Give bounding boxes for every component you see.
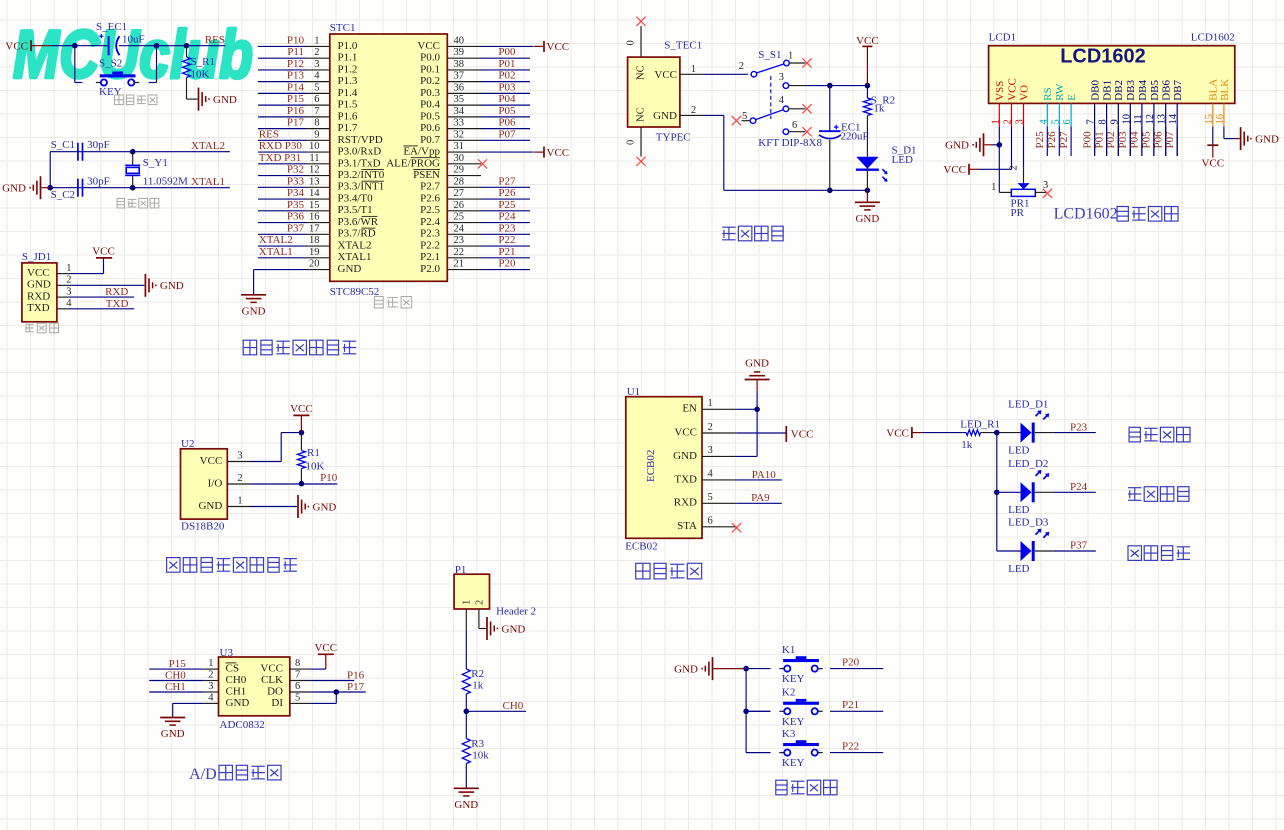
power VCC (supply) xyxy=(856,35,879,47)
svg-text:LCD1602: LCD1602 xyxy=(1191,32,1235,44)
svg-text:KEY: KEY xyxy=(99,86,122,98)
svg-text:2: 2 xyxy=(1009,165,1020,170)
U1 pin 1 (EN) xyxy=(682,398,736,415)
power VCC (STC1 pin40) xyxy=(534,41,569,53)
svg-text:P37: P37 xyxy=(1070,540,1088,552)
label STC89C52 xyxy=(330,286,380,298)
wire R3 to GND xyxy=(465,764,467,789)
label S_TEC1 xyxy=(664,40,702,52)
svg-text:XTAL2: XTAL2 xyxy=(338,239,372,251)
svg-text:CH0: CH0 xyxy=(165,669,186,681)
svg-text:P16: P16 xyxy=(347,669,365,681)
wire TXD xyxy=(69,308,135,310)
wire VCC to R2 xyxy=(866,46,868,98)
svg-text:1k: 1k xyxy=(472,679,484,691)
net label P04 xyxy=(1129,131,1141,149)
svg-text:7: 7 xyxy=(314,106,319,117)
P1 pin 2 number xyxy=(475,600,486,605)
label DS18B20 xyxy=(181,520,225,532)
svg-text:S_S1: S_S1 xyxy=(758,49,781,61)
svg-text:P2.5: P2.5 xyxy=(420,204,440,216)
U3 pin 6 (DO) xyxy=(267,681,310,697)
svg-text:P14: P14 xyxy=(287,81,305,93)
wire S_EC1 to RES xyxy=(119,45,226,47)
label LED (D1) xyxy=(1008,445,1029,457)
STC1 pin 26 (P2.5) xyxy=(420,200,481,216)
wire S_S1 pin3 to rails xyxy=(807,85,868,87)
svg-text:KEY: KEY xyxy=(782,716,805,728)
IC U1 body xyxy=(626,397,702,539)
wire net P02 (LCD pin 9) xyxy=(1117,127,1119,157)
svg-text:GND: GND xyxy=(855,213,879,225)
wire net P04 (STC1 pin 35) xyxy=(481,104,530,106)
svg-text:P35: P35 xyxy=(287,199,305,211)
wire net RXD P30 (STC1 pin 10) xyxy=(258,151,306,153)
STC1 pin 2 (P1.1) xyxy=(306,47,357,63)
net label P20 xyxy=(842,656,860,668)
label LED_R1 xyxy=(960,419,1000,431)
svg-text:GND: GND xyxy=(2,183,26,195)
svg-text:P3.6/WR: P3.6/WR xyxy=(338,216,379,228)
net label P35 xyxy=(287,199,305,211)
wire VCC to S_EC1 xyxy=(52,45,109,47)
svg-text:36: 36 xyxy=(454,82,465,93)
svg-text:P05: P05 xyxy=(498,105,516,117)
svg-text:GND: GND xyxy=(27,279,51,291)
label KEY (K1) xyxy=(782,673,805,685)
P1 pin 1 number xyxy=(462,600,473,605)
svg-text:P11: P11 xyxy=(287,46,304,58)
svg-text:30: 30 xyxy=(454,153,465,164)
svg-text:6: 6 xyxy=(314,94,319,105)
svg-text:2: 2 xyxy=(208,670,213,681)
power GND (STC1) xyxy=(241,295,266,318)
svg-text:VCC: VCC xyxy=(547,41,570,53)
power GND (R3) xyxy=(454,788,479,811)
svg-text:GND: GND xyxy=(502,623,526,635)
junction (DO/DI) xyxy=(334,689,340,695)
wire net CH1 xyxy=(149,691,204,693)
svg-text:XTAL1: XTAL1 xyxy=(191,176,225,188)
wire net P23 (STC1 pin 24) xyxy=(481,233,530,235)
svg-text:1: 1 xyxy=(462,600,473,605)
wire left leg (caps) xyxy=(49,152,51,188)
STC1 pin 17 (P3.7/RD) xyxy=(306,223,376,239)
caption 晶振电路 xyxy=(117,198,159,208)
S_JD1 pin 3 (RXD) xyxy=(27,286,72,302)
LCD1 pin 8 (DB1) xyxy=(1098,80,1114,156)
svg-text:RW: RW xyxy=(1054,83,1066,101)
svg-text:1: 1 xyxy=(237,496,242,507)
wire DI loop xyxy=(310,692,336,703)
svg-text:S_C2: S_C2 xyxy=(51,189,75,201)
net label P27 xyxy=(498,175,516,187)
power GND (reset) xyxy=(199,88,237,111)
svg-text:10k: 10k xyxy=(472,750,489,762)
wire net P01 (STC1 pin 38) xyxy=(481,69,530,71)
LCD1 pin 1 (VSS) xyxy=(990,81,1006,127)
svg-text:PA9: PA9 xyxy=(751,492,770,504)
svg-text:GND: GND xyxy=(945,140,969,152)
svg-text:P24: P24 xyxy=(498,211,516,223)
svg-text:P2.0: P2.0 xyxy=(420,263,440,275)
wire U2 VCC to R1 xyxy=(251,433,301,462)
svg-text:NC: NC xyxy=(636,107,647,122)
svg-text:33: 33 xyxy=(454,118,465,129)
svg-text:P16: P16 xyxy=(287,105,305,117)
wire EC1 bottom xyxy=(829,140,831,191)
caption 环境温度采集模块 xyxy=(167,558,297,573)
svg-text:P2.3: P2.3 xyxy=(420,228,440,240)
resistor LED_R1 xyxy=(966,430,980,436)
label STC1 xyxy=(330,22,356,34)
no-ERC marker (S_S1 pin6) xyxy=(802,127,811,136)
value 30pF (S_C1) xyxy=(87,139,110,151)
svg-text:P10: P10 xyxy=(287,34,305,46)
U2 pin 1 (GND) xyxy=(198,496,251,512)
label K1 xyxy=(782,644,795,656)
svg-text:P00: P00 xyxy=(498,46,516,58)
svg-text:DB6: DB6 xyxy=(1161,80,1173,101)
net label P15 xyxy=(169,658,187,670)
power GND (LCD left) xyxy=(945,133,983,156)
svg-text:2: 2 xyxy=(739,61,744,72)
power GND (S_JD1) xyxy=(145,274,183,297)
svg-text:P22: P22 xyxy=(842,740,859,752)
power VCC (LCD left) xyxy=(943,164,979,176)
svg-text:P0.0: P0.0 xyxy=(420,52,440,64)
svg-text:220uF: 220uF xyxy=(841,130,869,142)
STC1 pin 11 (P3.1/TxD) xyxy=(306,153,381,169)
net label P22 xyxy=(842,740,859,752)
svg-text:ALE/PROG: ALE/PROG xyxy=(386,157,440,169)
wire TYPEC top stub xyxy=(640,26,642,57)
wire GND to key bus xyxy=(714,668,747,670)
svg-text:STC1: STC1 xyxy=(330,22,356,34)
junction (EN/GND) xyxy=(754,407,760,413)
svg-text:35: 35 xyxy=(454,94,465,105)
wire net P32 (STC1 pin 12) xyxy=(258,175,306,177)
svg-text:GND: GND xyxy=(160,280,184,292)
svg-text:LED: LED xyxy=(1008,445,1029,457)
wire net P24 (STC1 pin 25) xyxy=(481,222,530,224)
svg-text:2: 2 xyxy=(691,105,696,116)
svg-text:S_S2: S_S2 xyxy=(99,58,122,70)
U3 pin 2 (CH0) xyxy=(204,670,247,686)
STC1 pin 1 (P1.0) xyxy=(306,35,358,51)
value 1k (S_R2) xyxy=(873,103,885,115)
U1 pin 6 (STA) xyxy=(677,516,737,533)
U1 pin 4 (TXD) xyxy=(674,469,736,486)
svg-text:VCC: VCC xyxy=(1006,78,1018,101)
svg-text:CH0: CH0 xyxy=(503,700,524,712)
svg-text:5: 5 xyxy=(708,492,713,503)
value 10K (R1) xyxy=(306,461,325,473)
svg-text:TXD P31: TXD P31 xyxy=(259,152,301,164)
power VCC (U3) xyxy=(314,642,337,669)
resistor R3 xyxy=(462,739,470,764)
label EC1 xyxy=(841,121,861,133)
STC1 pin 38 (P0.1) xyxy=(420,59,481,75)
svg-text:38: 38 xyxy=(454,59,465,70)
wire EC1 top xyxy=(829,86,831,132)
svg-text:10: 10 xyxy=(309,141,320,152)
svg-text:RXD: RXD xyxy=(27,290,50,302)
crystal S_Y1 xyxy=(125,152,140,188)
value 10uF xyxy=(122,34,145,46)
STC1 pin 5 (P1.4) xyxy=(306,82,358,98)
svg-text:DB4: DB4 xyxy=(1137,80,1149,101)
wire net P07 (LCD pin 14) xyxy=(1176,127,1178,157)
svg-text:VCC: VCC xyxy=(290,403,313,415)
svg-text:CS: CS xyxy=(226,663,239,675)
wire net P15 (STC1 pin 6) xyxy=(258,104,306,106)
potentiometer PR1 xyxy=(991,165,1048,196)
LCD1 pin 3 (VO) xyxy=(1015,85,1031,127)
svg-text:1: 1 xyxy=(66,263,71,274)
svg-text:30pF: 30pF xyxy=(87,176,110,188)
svg-text:GND: GND xyxy=(673,450,697,462)
svg-text:VCC: VCC xyxy=(886,427,909,439)
svg-text:25: 25 xyxy=(454,212,465,223)
net label P37 xyxy=(287,222,305,234)
label LED (D3) xyxy=(1008,563,1029,575)
LCD1 pin 15 (BLA) xyxy=(1204,79,1220,127)
wire net CH0 (U3) xyxy=(149,680,204,682)
wire net XTAL1 (STC1 pin 19) xyxy=(258,257,306,259)
power GND (BLK) xyxy=(1241,127,1279,150)
label ECB02 (below) xyxy=(625,540,657,552)
wire button left leg xyxy=(75,46,83,83)
junction (I/O node) xyxy=(299,481,305,487)
svg-text:S_JD1: S_JD1 xyxy=(22,251,51,263)
wire U3 VCC xyxy=(310,668,326,670)
label KEY (K2) xyxy=(782,716,805,728)
wire net P37 (STC1 pin 17) xyxy=(258,233,306,235)
svg-text:GND: GND xyxy=(745,358,769,370)
wire U2 GND xyxy=(251,506,297,508)
svg-text:P0.4: P0.4 xyxy=(420,99,440,111)
label U2 xyxy=(181,438,194,450)
value 30pF (S_C2) xyxy=(87,176,110,188)
svg-text:17: 17 xyxy=(309,223,320,234)
net label P14 xyxy=(287,81,305,93)
wire LED to gnd rail xyxy=(866,169,868,191)
svg-text:DI: DI xyxy=(271,697,283,709)
wire XTAL1 rail xyxy=(50,187,230,189)
net label CH1 xyxy=(165,681,186,693)
S_TEC1 pin 1 (VCC) xyxy=(654,64,703,81)
no-ERC marker (PR1 pin3) xyxy=(1043,189,1052,198)
svg-text:P00: P00 xyxy=(1081,131,1093,149)
value 11.0592M xyxy=(143,176,188,188)
net label RES xyxy=(205,34,225,46)
wire BLK to GND xyxy=(1224,127,1240,139)
svg-text:GND: GND xyxy=(1255,133,1279,145)
LCD1 pin 12 (DB5) xyxy=(1145,80,1161,156)
svg-text:GND: GND xyxy=(674,663,698,675)
svg-text:VCC: VCC xyxy=(200,455,223,467)
wire LED bus xyxy=(997,433,1021,551)
caption 红灯电路 xyxy=(1129,427,1190,442)
svg-text:DS18B20: DS18B20 xyxy=(181,520,225,532)
net label P34 xyxy=(287,187,305,199)
caption 蓝牙模块 xyxy=(636,563,702,579)
wire net P00 (LCD pin 7) xyxy=(1094,127,1096,157)
wire XTAL2 rail xyxy=(50,151,230,153)
net label P27 xyxy=(1058,131,1070,149)
svg-text:P06: P06 xyxy=(1152,131,1164,149)
svg-text:14: 14 xyxy=(309,188,320,199)
U3 pin 4 (GND) xyxy=(204,692,250,708)
S_S1 pin 6 xyxy=(783,120,805,135)
svg-text:P25: P25 xyxy=(1034,131,1046,149)
net label P04 xyxy=(498,93,516,105)
svg-text:P15: P15 xyxy=(169,658,187,670)
S_JD1 pin 4 (TXD) xyxy=(27,298,72,314)
net label P33 xyxy=(287,175,305,187)
svg-text:P2.1: P2.1 xyxy=(420,251,440,263)
net label P07 xyxy=(1164,131,1176,149)
caption 黄灯电路 xyxy=(1128,487,1189,502)
wire net P06 (STC1 pin 33) xyxy=(481,128,530,130)
svg-text:VCC: VCC xyxy=(1201,157,1224,169)
svg-text:P1.6: P1.6 xyxy=(338,110,358,122)
MCUclub logo xyxy=(13,17,253,93)
STC1 pin 25 (P2.4) xyxy=(420,212,481,228)
svg-text:GND: GND xyxy=(653,110,677,122)
svg-text:P26: P26 xyxy=(1046,131,1058,149)
LCD1 pin 16 (BLK) xyxy=(1215,79,1231,127)
svg-text:LCD1: LCD1 xyxy=(989,32,1017,44)
caption 下载口 xyxy=(25,323,59,333)
svg-text:LED: LED xyxy=(1008,563,1029,575)
caption 绿灯电路 xyxy=(1128,546,1190,561)
svg-text:DB1: DB1 xyxy=(1102,80,1114,101)
svg-text:9: 9 xyxy=(314,129,319,140)
net label P11 xyxy=(287,46,304,58)
svg-text:P01: P01 xyxy=(1093,131,1105,148)
IC LCD1 body xyxy=(989,46,1235,104)
net label P20 xyxy=(498,258,516,270)
connector S_TEC1 body xyxy=(628,57,680,127)
svg-text:P1.4: P1.4 xyxy=(338,87,358,99)
svg-text:1: 1 xyxy=(991,182,996,193)
caption A/D转换电路 xyxy=(189,765,281,783)
wire net P17 (STC1 pin 8) xyxy=(258,128,306,130)
net label P23 xyxy=(498,222,516,234)
capacitor S_C1 xyxy=(78,143,83,161)
label S_R2 xyxy=(871,95,895,107)
wire D2 to P24 xyxy=(1035,491,1096,493)
STC1 pin 21 (P2.0) xyxy=(420,259,481,275)
svg-text:VCC: VCC xyxy=(943,164,966,176)
STC1 pin 7 (P1.6) xyxy=(306,106,358,122)
STC1 pin 32 (P0.7) xyxy=(420,129,481,145)
svg-text:RXD: RXD xyxy=(105,286,128,298)
svg-text:P1.0: P1.0 xyxy=(338,40,358,52)
resistor R2 xyxy=(462,669,470,694)
no-ERC marker (TYPEC bottom) xyxy=(636,157,645,166)
svg-text:P27: P27 xyxy=(498,175,516,187)
svg-text:6: 6 xyxy=(792,120,797,131)
svg-text:8: 8 xyxy=(314,118,319,129)
svg-text:1: 1 xyxy=(314,35,319,46)
svg-text:STA: STA xyxy=(677,520,697,532)
net label P21 xyxy=(498,246,515,258)
svg-text:VO: VO xyxy=(1018,85,1030,101)
wire net P16 xyxy=(310,680,354,682)
svg-text:37: 37 xyxy=(454,71,465,82)
STC1 pin 15 (P3.5/T1) xyxy=(306,200,373,216)
STC1 pin 28 (P2.7) xyxy=(420,176,481,192)
wire net P35 (STC1 pin 15) xyxy=(258,210,306,212)
svg-text:P34: P34 xyxy=(287,187,305,199)
label R1 xyxy=(307,447,320,459)
svg-text:LED: LED xyxy=(1008,504,1029,516)
no-ERC marker (STC1 pin30) xyxy=(478,159,487,168)
svg-text:P20: P20 xyxy=(842,656,860,668)
net label P12 xyxy=(287,58,304,70)
svg-text:LED_D1: LED_D1 xyxy=(1008,398,1048,410)
diode LED_D1 xyxy=(1021,410,1050,442)
svg-text:P37: P37 xyxy=(287,222,305,234)
svg-text:P1.1: P1.1 xyxy=(338,52,358,64)
junction (button left) xyxy=(72,43,78,49)
junction (led/gnd rail) xyxy=(865,188,871,194)
power GND (crystal) xyxy=(2,176,40,199)
svg-text:P1.3: P1.3 xyxy=(338,75,358,87)
svg-text:P23: P23 xyxy=(498,222,516,234)
svg-text:VCC: VCC xyxy=(791,428,814,440)
wire VO to wiper xyxy=(1023,127,1025,184)
svg-text:TYPEC: TYPEC xyxy=(656,132,691,144)
svg-text:DB3: DB3 xyxy=(1125,80,1137,101)
wire net P01 (LCD pin 8) xyxy=(1106,127,1108,157)
STC1 pin 12 (P3.2/INT0) xyxy=(306,165,385,181)
svg-text:LED_D3: LED_D3 xyxy=(1008,517,1049,529)
caption 单片机最小系统 xyxy=(243,340,356,355)
caption 电源电路 xyxy=(722,226,783,241)
svg-text:DB7: DB7 xyxy=(1172,80,1184,101)
net label P06 xyxy=(1152,131,1164,149)
net label P10 xyxy=(287,34,305,46)
label U3 xyxy=(220,647,234,659)
svg-text:R1: R1 xyxy=(307,447,320,459)
label PR1 xyxy=(1011,198,1030,210)
label TYPEC xyxy=(656,132,691,144)
wire net P16 (STC1 pin 7) xyxy=(258,116,306,118)
svg-text:P3.7/RD: P3.7/RD xyxy=(338,228,376,240)
svg-text:32: 32 xyxy=(454,129,465,140)
svg-text:P10: P10 xyxy=(320,472,338,484)
label Header 2 xyxy=(496,606,536,618)
svg-text:P02: P02 xyxy=(1105,131,1117,148)
svg-text:CH1: CH1 xyxy=(165,681,186,693)
wire button right leg xyxy=(149,46,157,83)
svg-text:21: 21 xyxy=(454,259,465,270)
wire net P22 (STC1 pin 23) xyxy=(481,245,530,247)
junction (key bus 2) xyxy=(743,709,749,715)
svg-text:RES: RES xyxy=(259,128,279,140)
LCD1 pin 14 (DB7) xyxy=(1168,80,1184,156)
svg-text:16: 16 xyxy=(309,212,320,223)
junction GND (crystal) xyxy=(47,185,53,191)
net label P37 xyxy=(1070,540,1088,552)
svg-text:LED_R1: LED_R1 xyxy=(960,419,1000,431)
wire net P21 (STC1 pin 22) xyxy=(481,257,530,259)
svg-text:VCC: VCC xyxy=(417,40,440,52)
